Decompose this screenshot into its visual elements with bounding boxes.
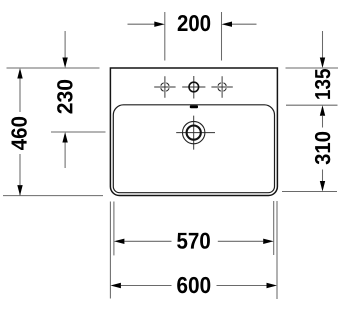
extension line 230 bottom	[51, 131, 106, 133]
arrow 230 top	[62, 58, 67, 69]
dimension line 200 right	[231, 23, 257, 25]
extension line 200 left	[164, 12, 166, 61]
arrow 200 left	[154, 22, 165, 27]
centerline tap hole centre	[182, 76, 205, 99]
label 600	[177, 277, 210, 293]
drain inner circle	[187, 126, 201, 140]
centerline tap hole right	[211, 76, 232, 97]
centerline drain	[176, 116, 215, 150]
arrow 230 bottom	[62, 132, 67, 143]
tap hole centre	[189, 82, 199, 92]
extension line top left (460/230)	[7, 67, 100, 69]
arrow 570 left	[114, 239, 125, 244]
dimension line 310 bottom tail	[322, 170, 324, 182]
arrow 600 right	[267, 283, 278, 288]
washbasin inner bowl outline	[113, 105, 274, 193]
arrow 310 bottom	[320, 181, 325, 192]
extension line right middle (y=105.2)	[286, 104, 338, 106]
label 460	[11, 117, 27, 150]
tap hole left (dashed circle)	[161, 83, 170, 92]
dimension line 230 top tail	[64, 31, 66, 58]
arrow 460 bottom	[17, 185, 22, 196]
label 570	[177, 233, 210, 249]
label 310	[315, 132, 330, 164]
arrow 200 right	[222, 22, 233, 27]
extension line right bottom (y=191.5)	[282, 191, 337, 193]
arrow 570 right	[263, 239, 274, 244]
overflow slot	[190, 105, 198, 108]
arrow 600 left	[110, 283, 121, 288]
label 135	[315, 69, 330, 99]
washbasin outer outline	[110, 68, 277, 196]
dimension line 570	[124, 240, 263, 242]
extension line right top (y=68)	[286, 67, 339, 69]
extension line 600 right	[276, 201, 278, 299]
centerline tap hole left	[154, 76, 175, 97]
arrow 135 top	[320, 58, 325, 69]
extension line 570 left	[113, 202, 115, 256]
dimension line 200 left	[128, 23, 156, 25]
label 230	[57, 80, 73, 114]
dimension line 310 top tail	[322, 116, 324, 128]
dimension line 600	[121, 285, 267, 287]
label 200	[178, 15, 210, 31]
arrow 460 top	[17, 68, 22, 79]
extension line 200 right	[221, 12, 223, 61]
arrow 310 top	[320, 105, 325, 116]
tap hole right (dashed circle)	[218, 83, 227, 92]
extension line bottom left (460)	[3, 195, 103, 197]
dimension line 460	[19, 79, 21, 196]
drain outer circle	[183, 121, 205, 143]
extension line 570 right	[273, 201, 275, 255]
dimension line 135 top tail	[322, 31, 324, 58]
extension line 600 left	[109, 202, 111, 299]
dimension line 230 bottom tail	[64, 143, 66, 169]
